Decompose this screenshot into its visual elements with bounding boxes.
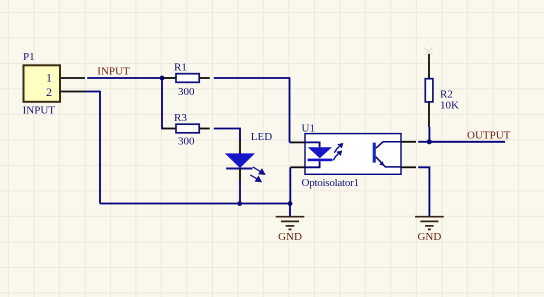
svg-text:R1: R1 xyxy=(174,61,187,73)
svg-text:INPUT: INPUT xyxy=(23,105,56,117)
wire LED to ground rail xyxy=(239,181,241,204)
U1 pin 1 anode xyxy=(292,141,305,143)
wire R3 to LED xyxy=(214,129,240,143)
svg-text:1: 1 xyxy=(46,71,52,85)
U1 internal LED triangle xyxy=(308,147,332,158)
LED DS1 pin anode xyxy=(239,141,241,154)
U1 phototransistor emitter xyxy=(376,157,401,167)
resistor R3 pin 1 xyxy=(163,128,176,130)
LED triangle xyxy=(226,154,254,168)
U1 phototransistor base bar xyxy=(373,143,376,163)
U1 internal LED anode lead xyxy=(305,142,320,147)
wire junction to R1 xyxy=(162,77,164,79)
junction rail/GND xyxy=(288,201,293,206)
LED pin cathode xyxy=(239,169,241,182)
wire U1 cathode down to rail xyxy=(289,167,291,203)
wire R2 to junction xyxy=(428,127,430,142)
resistor R2 body xyxy=(425,79,433,102)
resistor R1 pin 1 xyxy=(163,77,176,79)
svg-text:R3: R3 xyxy=(174,112,187,124)
U1 emitter arrowhead xyxy=(379,161,384,166)
P1 pin 1 xyxy=(61,77,85,79)
svg-text:GND: GND xyxy=(278,231,302,243)
wire P1 pin2 down xyxy=(85,92,100,204)
wire junction down to R3 xyxy=(162,78,164,129)
U1 internal LED cathode lead xyxy=(305,161,320,167)
svg-text:U1: U1 xyxy=(302,123,315,135)
svg-text:300: 300 xyxy=(178,86,195,98)
junction node A xyxy=(160,76,165,81)
svg-text:Optoisolator1: Optoisolator1 xyxy=(302,177,359,189)
ground GND1 bars xyxy=(276,217,305,230)
wire into U1 anode xyxy=(290,141,294,143)
wire R1 to U1 anode corner xyxy=(214,78,290,142)
LED emission arrow 1 xyxy=(253,167,265,175)
optoisolator U1 body xyxy=(305,134,401,175)
U1 internal LED cathode bar xyxy=(308,159,333,162)
junction collector/R2 xyxy=(427,139,432,144)
LED cathode bar xyxy=(226,168,252,170)
U1 emission arrow 2 xyxy=(333,151,341,160)
ground GND2 bars xyxy=(415,217,444,230)
resistor R2 pin 2 xyxy=(428,102,430,127)
wire OUTPUT net xyxy=(429,141,505,143)
svg-text:10K: 10K xyxy=(440,99,459,111)
LED emission arrow 2 xyxy=(250,175,261,182)
resistor R3 pin 2 xyxy=(200,128,210,130)
wire INPUT net xyxy=(87,77,162,79)
svg-text:2: 2 xyxy=(46,85,52,99)
wire collector to junction xyxy=(418,141,429,143)
svg-text:P1: P1 xyxy=(23,51,35,63)
resistor R1 pin 2 xyxy=(200,77,210,79)
U1 emission arrow 1 xyxy=(334,144,342,153)
junction LED/rail xyxy=(237,201,242,206)
resistor R3 body xyxy=(176,124,199,133)
U1 pin 2 cathode xyxy=(290,166,305,168)
no-ERC marker above R2 xyxy=(425,48,433,55)
wire ground rail xyxy=(100,203,290,205)
svg-text:LED: LED xyxy=(251,131,272,143)
U1 phototransistor collector xyxy=(376,142,401,148)
connector P1 body xyxy=(24,65,61,102)
svg-text:300: 300 xyxy=(178,135,195,147)
svg-text:OUTPUT: OUTPUT xyxy=(467,130,511,142)
ground GND1 stub xyxy=(289,204,291,217)
resistor R2 pin 1 xyxy=(428,54,430,78)
U1 pin 3 emitter xyxy=(401,166,416,168)
P1 pin 2 xyxy=(61,91,85,93)
resistor R1 body xyxy=(176,74,199,83)
svg-text:GND: GND xyxy=(417,231,441,243)
svg-text:INPUT: INPUT xyxy=(97,65,130,77)
wire emitter to GND2 xyxy=(418,167,429,216)
U1 pin 4 collector xyxy=(401,141,416,143)
